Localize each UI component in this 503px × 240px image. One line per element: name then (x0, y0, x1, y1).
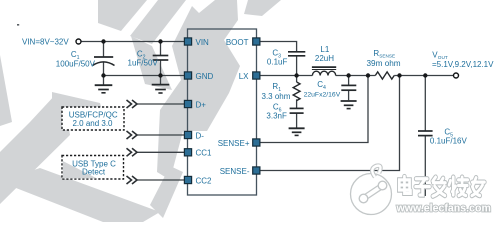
node L1-C4 (346, 73, 350, 77)
node LX-C3-R1 (294, 73, 298, 77)
svg-text:L1: L1 (320, 45, 329, 54)
pin CC2 (184, 176, 191, 183)
node VIN-C1 top (101, 39, 105, 43)
pin SENSE+ (253, 139, 260, 146)
capacitor C6 (290, 108, 304, 113)
svg-text:VIN: VIN (196, 38, 210, 47)
ground (C2) (152, 85, 170, 93)
node VOUT-C5 (423, 73, 427, 77)
svg-text:SENSE+: SENSE+ (218, 139, 250, 148)
svg-text:22uH: 22uH (315, 54, 334, 63)
IC U1 outline (188, 29, 257, 195)
svg-text:1uF/50V: 1uF/50V (128, 59, 159, 68)
svg-text:SENSE-: SENSE- (220, 167, 250, 176)
svg-text:3.3 ohm: 3.3 ohm (262, 92, 291, 101)
pin LX (253, 72, 260, 79)
speck mark (17, 24, 19, 26)
svg-text:CC2: CC2 (196, 176, 213, 185)
capacitor C3 (288, 52, 305, 56)
chevron D+ (127, 100, 138, 108)
ground (C1) (95, 85, 113, 93)
IC pins (184, 38, 260, 184)
capacitor C2 (153, 56, 169, 61)
watermark gray letters (background) (0, 0, 281, 180)
node GND-C1 bottom (101, 73, 105, 77)
box USB/FCP/QC (62, 107, 124, 130)
svg-text:4: 4 (323, 85, 326, 91)
pin VIN (184, 38, 191, 45)
svg-text:D+: D+ (196, 100, 207, 109)
wire CC2 row (137, 179, 184, 181)
box USB Type C Detect (62, 156, 124, 180)
svg-text:www.elecfans.com: www.elecfans.com (396, 203, 491, 215)
wire D- row (137, 134, 184, 136)
resistor RSENSE (375, 72, 394, 79)
wire SENSE- run (260, 76, 400, 171)
pin D+ (184, 100, 191, 107)
svg-text:0.1uF: 0.1uF (267, 58, 288, 67)
svg-text:39m ohm: 39m ohm (367, 59, 401, 68)
watermark big D ring (0, 92, 183, 222)
svg-text:0.1uF/16V: 0.1uF/16V (430, 136, 468, 145)
wire SENSE+ run (260, 76, 368, 143)
wire LX rail (260, 75, 312, 77)
ground (C6) (289, 128, 305, 135)
pin BOOT (253, 38, 260, 45)
svg-text:SENSE: SENSE (379, 54, 395, 59)
elecfans watermark text 电子发烧友 (hand drawn) (399, 177, 484, 197)
svg-text:LX: LX (239, 72, 249, 81)
pin GND (184, 72, 191, 79)
chevron D- (127, 131, 138, 139)
pin SENSE- (253, 167, 260, 174)
terminal VIN (76, 39, 81, 44)
svg-text:22uFx2/16V: 22uFx2/16V (304, 91, 341, 98)
node SENSE+ tap (366, 73, 370, 77)
svg-text:=5.1V,9.2V,12.1V: =5.1V,9.2V,12.1V (432, 60, 494, 69)
wire C4 branch (348, 76, 350, 85)
wire CC1 row (137, 151, 184, 153)
wire C1 stub (103, 42, 105, 57)
svg-text:Detect: Detect (82, 168, 106, 177)
svg-text:100uF/50V: 100uF/50V (56, 60, 96, 69)
resistor R1 (293, 82, 300, 101)
wire C5 branch (424, 76, 426, 131)
svg-text:2.0 and 3.0: 2.0 and 3.0 (72, 119, 113, 128)
node SENSE- tap (397, 73, 401, 77)
svg-text:BOOT: BOOT (226, 38, 249, 47)
capacitor C1 (polarized) (93, 57, 115, 66)
wire VIN top rail (81, 42, 453, 197)
wire R1 to C6 (296, 76, 298, 83)
elecfans watermark logo (351, 166, 392, 215)
svg-text:D-: D- (196, 131, 205, 140)
svg-text:USB/FCP/QC: USB/FCP/QC (69, 110, 118, 119)
wire BOOT to C3 (260, 42, 297, 52)
svg-text:3.3nF: 3.3nF (266, 112, 287, 121)
terminal VOUT (454, 73, 459, 78)
inductor L1 (312, 67, 336, 75)
node GND-C2 bottom (158, 73, 162, 77)
pin CC1 (184, 149, 191, 156)
wire C2 stub (160, 42, 162, 56)
chevron CC2 (127, 176, 138, 184)
pin D- (184, 131, 191, 138)
node VIN-C2 top (158, 39, 162, 43)
ground (C4) (341, 101, 357, 109)
svg-text:VIN=8V~32V: VIN=8V~32V (22, 37, 69, 46)
capacitor C5 (418, 131, 433, 136)
chevron CC1 (127, 148, 138, 156)
capacitor C4 (341, 85, 356, 90)
wire D+ row (137, 103, 184, 105)
svg-text:GND: GND (196, 72, 214, 81)
svg-text:CC1: CC1 (196, 149, 213, 158)
wire GND bottom rail (104, 75, 186, 77)
